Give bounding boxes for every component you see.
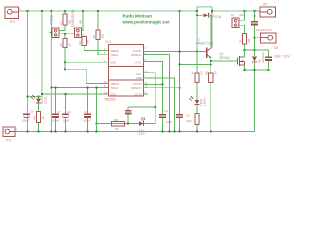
resistor R5 33K <box>96 11 109 55</box>
node dots sub rail <box>26 95 39 97</box>
resistor R1o 33K <box>242 34 246 51</box>
svg-text:R4: R4 <box>78 41 82 45</box>
node dot TRIG2 on col3 <box>50 86 52 88</box>
svg-text:S1: S1 <box>231 13 235 17</box>
capacitor C2 <box>176 114 183 118</box>
diode D5 HER108 vertical <box>252 50 257 70</box>
capacitor C10 under IC <box>125 107 132 123</box>
svg-text:TRIG2: TRIG2 <box>110 86 118 90</box>
wire source down <box>244 65 246 70</box>
svg-text:C1: C1 <box>165 109 169 113</box>
svg-text:C8: C8 <box>253 14 257 18</box>
svg-text:1K: 1K <box>191 71 195 74</box>
svg-text:JP1: JP1 <box>262 3 268 7</box>
led LED3 power <box>31 95 41 104</box>
resistor R6 below LED2 <box>195 104 199 131</box>
wire drain up <box>244 50 246 57</box>
wire VCC route <box>143 73 155 124</box>
wire OUT1 route <box>143 62 162 114</box>
svg-text:10nF: 10nF <box>166 120 172 124</box>
node dot DIS2 on col2 <box>41 93 43 95</box>
resistor R7 1K <box>195 52 199 100</box>
wire DIS1 line <box>65 61 108 63</box>
wire D1 anode stub <box>197 14 203 16</box>
svg-text:1K: 1K <box>67 43 71 46</box>
capacitor C4 100nF <box>84 88 91 132</box>
wire C10 top link <box>128 106 155 108</box>
wire to JP2 <box>255 37 261 39</box>
trimmer P1 FREQ <box>49 28 60 38</box>
svg-text:TRES2: TRES2 <box>110 82 119 86</box>
node junction dots top rail <box>26 10 255 16</box>
svg-text:10K: 10K <box>79 20 83 25</box>
capacitor C9 220uF polarized <box>23 114 30 118</box>
node dots drain line <box>243 49 255 51</box>
wire emitter net line <box>180 63 211 65</box>
svg-text:CONT2: CONT2 <box>132 82 142 86</box>
svg-text:10uF: 10uF <box>63 119 69 123</box>
svg-text:JP3: JP3 <box>10 20 16 24</box>
resistor R2 mid 10K <box>59 34 74 70</box>
svg-text:FREQ: FREQ <box>50 15 54 25</box>
svg-text:HER108: HER108 <box>261 52 265 63</box>
wire left bracket vertical / T1 base feed column <box>196 7 198 52</box>
wire RESET1 route <box>143 55 169 132</box>
node dots sub rail <box>243 69 269 71</box>
svg-text:RESET2: RESET2 <box>131 86 142 90</box>
svg-text:JP4: JP4 <box>6 139 12 143</box>
IC pin numbers <box>104 47 148 94</box>
svg-text:C9: C9 <box>30 110 34 114</box>
svg-text:IRF840: IRF840 <box>219 56 230 60</box>
wire column 2 <box>41 11 43 97</box>
capacitor C8 <box>251 11 258 56</box>
wire right riser <box>254 70 256 132</box>
svg-text:R8: R8 <box>32 116 36 120</box>
svg-text:LEDV: LEDV <box>138 131 145 135</box>
svg-text:DIS2: DIS2 <box>110 92 116 96</box>
wire D1 cathode stub <box>210 14 213 16</box>
wire TRIG2 drop column <box>96 88 98 132</box>
capacitor C1 <box>159 114 166 118</box>
capacitor C3 10uF polarized <box>62 94 69 132</box>
wire rail to switch <box>244 11 246 20</box>
svg-text:TRIG1: TRIG1 <box>110 53 118 57</box>
node dots bottom rail <box>26 130 211 132</box>
wire top rail left <box>19 10 198 12</box>
svg-text:R3: R3 <box>115 127 119 131</box>
node trimmer1 left pin on column3 <box>50 32 52 34</box>
wire drain node line <box>245 49 269 51</box>
node dot JP2 tee <box>253 37 255 39</box>
resistor R9 10K <box>209 64 213 131</box>
svg-text:R9: R9 <box>214 71 218 75</box>
svg-text:TRES1: TRES1 <box>110 49 119 53</box>
node dot emitter/base net <box>210 63 212 65</box>
resistor R3 10K horizontal <box>111 121 124 125</box>
resistor R1 top left 10K <box>59 11 67 30</box>
wire column 1 <box>27 11 29 132</box>
resistor R4 below P2 <box>82 35 109 51</box>
IC pin names section1 <box>110 49 142 97</box>
node dot base line at 197.5 <box>196 50 198 52</box>
svg-text:www.pocketmagic.net: www.pocketmagic.net <box>122 19 171 24</box>
svg-text:10nF / 1KV: 10nF / 1KV <box>274 55 291 59</box>
wire THRES2 route <box>65 69 108 83</box>
wire column 3 <box>50 11 52 132</box>
node dots on 179.5 column <box>178 50 180 65</box>
svg-text:R5: R5 <box>92 35 96 39</box>
trimmer P2 DURATION <box>74 28 81 38</box>
svg-text:R2: R2 <box>59 43 63 47</box>
svg-text:Radu Motisan: Radu Motisan <box>123 14 153 19</box>
svg-text:10K: 10K <box>205 71 209 76</box>
svg-text:10uF/0.1KV: 10uF/0.1KV <box>256 28 272 32</box>
wire GND route <box>143 78 174 132</box>
svg-text:RESET1: RESET1 <box>131 53 142 57</box>
transistor Q1 IRF840 <box>211 56 245 66</box>
connector JP1 <box>260 7 276 17</box>
connector JP4 <box>3 127 15 137</box>
node dots R2 column <box>64 61 66 70</box>
svg-text:NE556: NE556 <box>105 98 116 102</box>
wire RESET2 route <box>143 87 179 89</box>
svg-text:10K: 10K <box>114 118 119 122</box>
svg-text:OUT1: OUT1 <box>134 61 142 65</box>
svg-text:CONT1: CONT1 <box>132 49 142 53</box>
svg-text:100nF: 100nF <box>52 119 60 123</box>
svg-text:LEDR: LEDR <box>203 98 207 105</box>
transistor T1 MMBT2222 <box>206 48 211 59</box>
switch S1 <box>232 18 245 28</box>
wire CONT1 / T1 base line <box>143 51 205 53</box>
op IC1 NE556 box <box>108 44 143 96</box>
wire rail to trimmer P2 <box>82 11 84 30</box>
svg-text:IC1: IC1 <box>106 40 112 44</box>
wire D1 bypass bracket <box>197 6 212 8</box>
wire bottom rail <box>15 131 255 133</box>
svg-text:10K: 10K <box>86 40 90 45</box>
svg-text:C6: C6 <box>274 46 278 50</box>
diode D1 <box>203 13 208 17</box>
svg-text:VCC: VCC <box>136 72 142 76</box>
connector JP2 <box>261 33 277 43</box>
svg-text:R1: R1 <box>238 39 242 43</box>
wire switch to R1out <box>244 25 246 33</box>
wire source sub rail <box>245 69 269 71</box>
svg-text:100nF: 100nF <box>83 119 91 123</box>
wire right bracket vertical / T1 collector column <box>211 7 213 48</box>
svg-text:OUT2: OUT2 <box>134 92 142 96</box>
svg-text:220uF: 220uF <box>22 119 30 123</box>
wire top rail right <box>212 10 260 12</box>
led LED2 red <box>189 96 200 105</box>
svg-text:R7: R7 <box>200 71 204 75</box>
connector JP3 <box>5 7 19 19</box>
node dots on led line <box>95 122 129 124</box>
svg-text:10nF: 10nF <box>186 119 192 123</box>
svg-text:C5: C5 <box>186 114 190 118</box>
led LED1 horizontal <box>139 117 145 126</box>
svg-text:LEDB: LEDB <box>44 97 48 104</box>
svg-text:1K: 1K <box>41 116 45 119</box>
svg-text:33K: 33K <box>247 38 251 43</box>
resistor R8 <box>36 103 40 131</box>
capacitor C6 <box>265 50 272 70</box>
svg-text:DURATION: DURATION <box>71 9 75 27</box>
svg-text:C7: C7 <box>57 110 61 114</box>
wire R3/LED1 line <box>97 123 156 125</box>
wire TRIG2 line <box>51 87 108 89</box>
svg-text:C4: C4 <box>84 110 88 114</box>
svg-text:R1: R1 <box>59 21 63 25</box>
svg-text:GND: GND <box>136 76 142 80</box>
wire sub rail power leds <box>28 96 43 98</box>
svg-text:C3: C3 <box>67 110 71 114</box>
wire T1 collector up <box>210 15 212 48</box>
wire OUT2 stub <box>143 93 148 95</box>
wire rail column through C2 <box>179 11 181 114</box>
svg-text:DIS1: DIS1 <box>110 61 116 65</box>
svg-text:33K: 33K <box>101 34 105 39</box>
wire DIS2 line <box>42 93 108 95</box>
capacitor C7 100nF <box>52 88 59 132</box>
wire T1 emitter down <box>210 58 212 65</box>
wire CONT2 route <box>143 83 162 85</box>
